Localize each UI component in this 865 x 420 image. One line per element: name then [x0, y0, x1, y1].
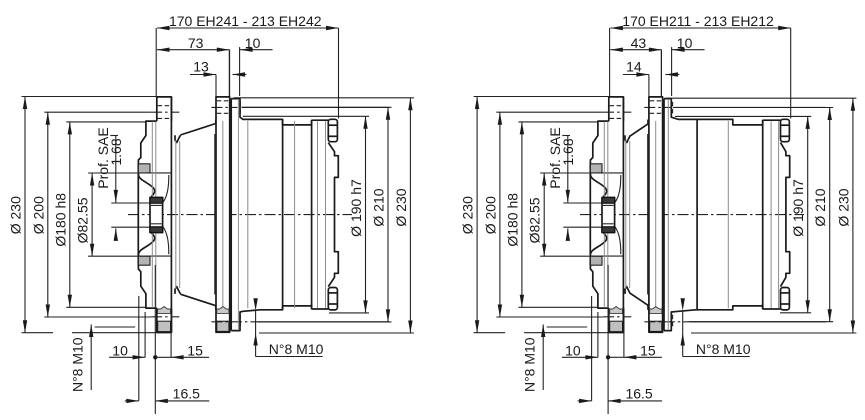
left unit rear flange top bolt axis Ø210 PCD — [211, 106, 237, 108]
left unit rear flange bottom bolt axis Ø210 PCD — [211, 321, 256, 323]
right unit dim Ø180 h8 vertical line — [521, 122, 523, 307]
left unit dim Ø180 h8 vertical line — [69, 122, 71, 307]
svg-text:Ø 200: Ø 200 — [30, 196, 46, 234]
right unit SAE flange bottom lug thread section — [610, 307, 623, 314]
right unit rear flange mid section line — [655, 121, 657, 308]
right unit body collar inner line — [667, 100, 669, 329]
right unit hub rear cast fillet upper — [615, 175, 621, 203]
left unit SAE flange rear face — [170, 97, 172, 333]
svg-text:Ø 230: Ø 230 — [460, 196, 476, 234]
svg-text:Ø180 h8: Ø180 h8 — [504, 193, 520, 247]
right unit spline hub upper band — [602, 198, 615, 204]
right unit pilot bore Ø82.55 upper line — [598, 172, 623, 174]
left unit dim Ø 210 vertical line — [387, 107, 389, 322]
left unit body section thin line 1 — [247, 121, 249, 308]
right unit SAE flange bottom lug bolt section — [610, 321, 623, 331]
right unit bell inner wall lines — [625, 140, 627, 289]
svg-text:Ø 230: Ø 230 — [393, 188, 409, 226]
right unit dim 43 line — [610, 49, 661, 51]
left unit tapped hole hidden line bottom — [239, 315, 241, 328]
left unit rear flange mid section line — [222, 121, 224, 308]
svg-text:Ø 210: Ø 210 — [371, 188, 387, 226]
right unit body section joint line — [696, 120, 698, 309]
right drawing EH211/EH212 — [460, 13, 857, 414]
right unit dim Ø 230 vertical line — [852, 98, 854, 333]
svg-text:N°8 M10: N°8 M10 — [696, 341, 751, 357]
svg-text:13: 13 — [193, 59, 209, 75]
left unit SAE flange upper sectioned lug — [138, 164, 150, 173]
svg-text:Ø 230: Ø 230 — [835, 188, 851, 226]
svg-text:Ø 200: Ø 200 — [482, 196, 498, 234]
right unit SAE flange lower sectioned lug — [590, 256, 602, 265]
left unit N°8 M10 left leader — [90, 325, 92, 391]
right unit bottom ext verticals — [591, 296, 593, 401]
right unit rear flange bottom bolt axis Ø210 PCD — [644, 321, 689, 323]
left unit dim 170 ext lines — [155, 28, 157, 96]
left unit hub rear cast fillet upper — [163, 175, 169, 203]
right unit dim 10 line — [660, 50, 662, 96]
left unit rear flange pilot lip — [214, 134, 216, 295]
right unit rear flange bottom thread section — [650, 307, 662, 314]
left unit dim 15 bottom line — [155, 356, 171, 358]
svg-text:Ø 230: Ø 230 — [8, 196, 24, 234]
left unit body upper profile — [231, 99, 311, 125]
right unit hub rear cast fillet lower — [615, 226, 621, 254]
right unit end cover plate — [763, 120, 781, 309]
left unit bell cone lower edge — [180, 294, 215, 310]
svg-text:Ø82.55: Ø82.55 — [75, 197, 91, 243]
svg-text:16.5: 16.5 — [625, 386, 652, 402]
right unit body collar front face — [663, 99, 665, 331]
left unit rear flange disc — [216, 97, 230, 332]
left unit spline hub upper band — [150, 198, 163, 204]
svg-text:Ø 210: Ø 210 — [812, 188, 828, 226]
left unit end cover plate — [312, 120, 329, 309]
right unit body lower profile — [664, 306, 763, 331]
left unit spline minor diameter lines — [151, 204, 162, 206]
left unit end cover thin line 1 — [317, 121, 319, 308]
right unit Prof SAE leader — [562, 135, 570, 137]
right unit flange mounting face lines — [603, 122, 605, 308]
left unit dim 10 bottom line — [109, 356, 145, 358]
left unit SAE flange gasket face line — [137, 164, 139, 266]
left unit axis centreline — [128, 214, 352, 216]
left unit dim Ø 200 vertical line — [47, 112, 49, 317]
right unit dim 170 line — [610, 27, 790, 29]
svg-text:Ø180 h8: Ø180 h8 — [52, 193, 68, 247]
right unit spline hub body — [602, 198, 615, 233]
left unit dim Ø 230 vertical line — [24, 97, 26, 333]
right unit pilot bore Ø82.55 lower line — [598, 255, 623, 257]
svg-text:15: 15 — [640, 342, 656, 358]
right unit axis centreline — [580, 214, 804, 216]
left unit dim 13 line — [190, 74, 216, 76]
svg-text:Ø 190 h7: Ø 190 h7 — [790, 179, 806, 237]
right unit SAE flange top lug — [609, 97, 624, 121]
left unit body section joint line — [282, 120, 284, 309]
right unit N°8 M10 left leader — [542, 325, 544, 391]
right unit SAE flange rear face — [622, 97, 624, 333]
svg-text:170 EH211 - 213 EH212: 170 EH211 - 213 EH212 — [622, 13, 774, 29]
right unit rear flange top bolt axis Ø210 PCD — [644, 106, 670, 108]
right unit dim Ø 190 h7 vertical line — [807, 116, 809, 312]
right unit end cover face with bosses — [781, 143, 790, 287]
left unit dim 73 line — [157, 49, 229, 51]
left unit bell cone upper edge — [180, 120, 215, 136]
left unit dim 10 line — [229, 50, 231, 96]
svg-text:10: 10 — [112, 342, 128, 358]
left unit rear flange top bolt hole hidden lines — [217, 100, 229, 102]
left unit body section thin line 2 — [294, 121, 296, 308]
left unit end cover top bolt head — [328, 119, 337, 141]
svg-text:10: 10 — [565, 342, 581, 358]
left unit Prof SAE leader — [110, 135, 118, 137]
right unit tapped hole hidden line top — [672, 102, 674, 115]
right unit spline minor diameter lines — [603, 204, 614, 206]
svg-text:N°8 M10: N°8 M10 — [269, 341, 324, 357]
right unit SAE flange upper sectioned lug — [590, 164, 602, 173]
left unit SAE flange cast profile — [138, 121, 156, 308]
svg-text:43: 43 — [631, 35, 647, 51]
right unit dim 43 ext line — [660, 50, 662, 97]
right unit SAE flange gasket face line — [589, 164, 591, 266]
svg-text:73: 73 — [188, 35, 204, 51]
right unit bell root notch upper — [625, 135, 630, 142]
svg-text:Ø82.55: Ø82.55 — [527, 197, 543, 243]
right unit rear flange top bolt hole hidden lines — [650, 100, 662, 102]
left unit SAE flange top bolt axis — [151, 111, 179, 113]
right unit tapped hole hidden line bottom — [672, 315, 674, 328]
svg-text:N°8 M10: N°8 M10 — [70, 337, 86, 392]
right unit bell root notch lower — [625, 287, 630, 294]
left unit pilot bore Ø82.55 lower line — [146, 255, 171, 257]
left unit SAE flange top lug — [157, 97, 172, 121]
right unit dim 14 line — [623, 74, 649, 76]
right unit body upper profile — [664, 99, 763, 125]
svg-text:170 EH241 - 213 EH242: 170 EH241 - 213 EH242 — [169, 13, 322, 29]
left unit rear flange bottom bolt section — [217, 321, 229, 331]
right unit SAE flange top lug bolt hole hidden lines — [610, 105, 623, 107]
left unit N°8 M10 right leader — [256, 356, 323, 358]
right unit dim Ø 200 vertical line — [499, 112, 501, 317]
right unit dim 16.5 line — [578, 400, 592, 402]
right unit body section thin line 1 — [727, 121, 729, 308]
left unit SAE flange bottom lug — [157, 308, 172, 332]
left unit dim 16.5 line — [125, 400, 139, 402]
left unit body collar front face — [230, 99, 232, 331]
right unit end cover top bolt head — [781, 119, 790, 141]
left unit end cover thin line 2 — [325, 121, 327, 308]
left unit pilot bore Ø82.55 upper line — [146, 172, 171, 174]
svg-text:16.5: 16.5 — [173, 386, 200, 402]
right unit rear flange pilot lip — [647, 134, 649, 295]
right unit dim Ø82.55 vertical line — [543, 173, 545, 256]
right unit bell cone lower edge — [630, 293, 648, 309]
right unit bell cone upper edge — [630, 120, 648, 136]
left unit SAE flange bottom bolt axis — [151, 316, 179, 318]
right unit SAE flange top bolt axis — [603, 111, 631, 113]
left unit dim 73 ext line — [228, 50, 230, 97]
left unit rear flange bottom thread section — [217, 307, 229, 314]
right unit rear flange bottom bolt section — [650, 321, 662, 331]
left unit body lower profile — [231, 306, 311, 331]
left unit tapped hole hidden line top — [239, 102, 241, 115]
left unit body collar inner line — [237, 100, 239, 329]
right unit dim 10 bottom line — [562, 356, 598, 358]
left unit spline hub body — [150, 198, 163, 233]
left unit dim Ø82.55 vertical line — [91, 173, 93, 256]
right unit dim Ø 230 vertical line — [476, 97, 478, 333]
left unit dim Ø 190 h7 vertical line — [365, 116, 367, 313]
left unit SAE flange lower sectioned lug — [138, 256, 150, 265]
right unit dim 170 ext lines — [609, 28, 611, 96]
left unit bell inner wall lines — [175, 140, 177, 289]
left unit spline hub lower band — [150, 227, 163, 233]
left unit SAE flange bottom lug bolt section — [158, 321, 171, 331]
left unit end cover face with bosses — [328, 143, 338, 287]
svg-text:14: 14 — [626, 59, 642, 75]
left unit SAE flange bottom lug thread section — [158, 307, 171, 314]
right unit end cover bottom bolt head — [781, 288, 790, 310]
right unit dim Ø 210 vertical line — [829, 108, 831, 322]
right unit N°8 M10 right leader — [683, 356, 750, 358]
left unit SAE flange top lug bolt hole hidden lines — [158, 105, 171, 107]
left unit bell root notch upper — [175, 135, 180, 142]
left unit bell root notch lower — [175, 287, 180, 294]
svg-text:N°8 M10: N°8 M10 — [522, 337, 538, 392]
left unit bottom ext verticals — [138, 296, 140, 401]
svg-text:Ø 190 h7: Ø 190 h7 — [348, 179, 364, 237]
left unit dim 170 line — [157, 27, 339, 29]
right unit rear flange disc — [649, 97, 663, 332]
left unit flange mounting face lines — [151, 122, 153, 308]
right unit spline hub lower band — [602, 227, 615, 233]
right unit dim 15 bottom line — [608, 356, 624, 358]
right unit SAE flange cast profile — [590, 121, 608, 308]
left drawing EH241/EH242 — [8, 13, 414, 414]
left unit hub rear cast fillet lower — [163, 226, 169, 254]
right unit end cover thin line 2 — [778, 121, 780, 308]
right unit SAE flange bottom bolt axis — [603, 316, 631, 318]
right unit SAE flange bottom lug — [609, 308, 624, 332]
left unit end cover bottom bolt head — [328, 288, 337, 310]
svg-text:15: 15 — [187, 342, 203, 358]
left unit dim Ø 230 vertical line — [409, 98, 411, 333]
right unit end cover thin line 1 — [770, 121, 772, 308]
